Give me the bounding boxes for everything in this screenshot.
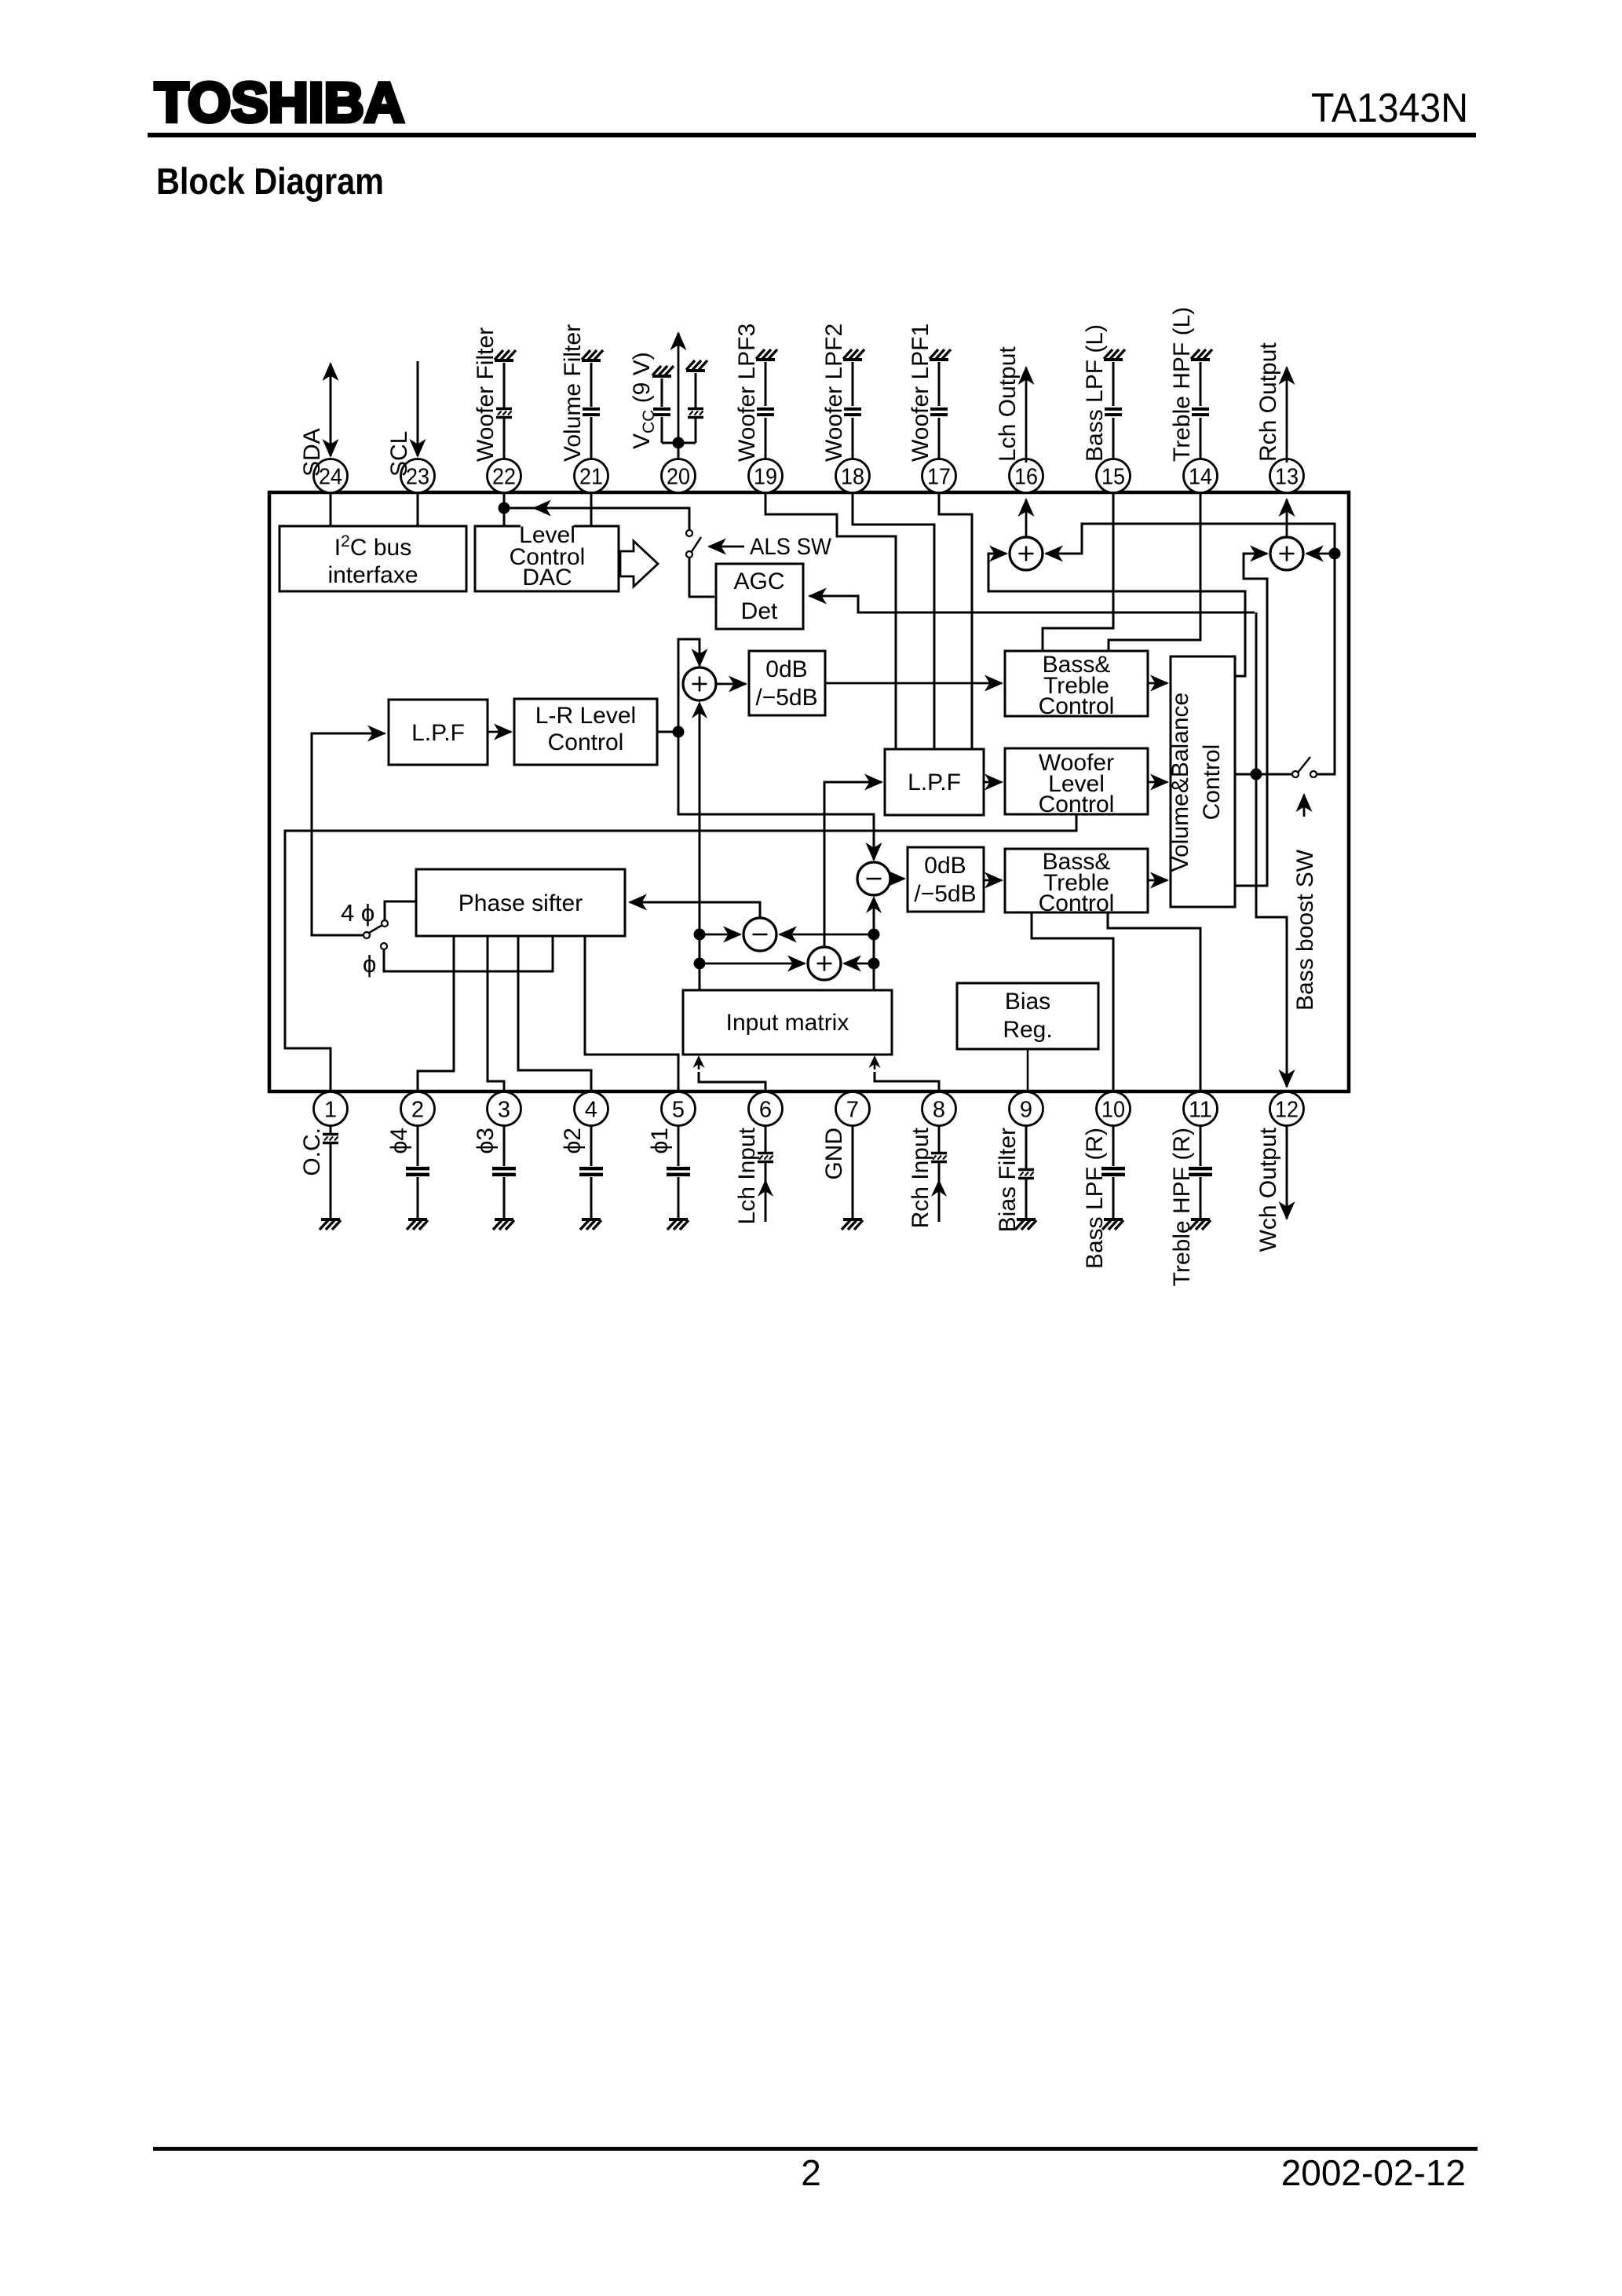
svg-text:7: 7 <box>846 1098 859 1123</box>
svg-text:1: 1 <box>324 1098 337 1123</box>
wire Rch dot to S3 <box>780 934 874 936</box>
svg-text:Phase sifter: Phase sifter <box>458 890 583 916</box>
ALS SW switch <box>686 530 701 558</box>
pin 7 <box>836 1092 870 1126</box>
wire O.C. line (pin 1) and woofer tap <box>285 814 1076 1091</box>
wire S6 up to pin 13 <box>1286 499 1288 538</box>
wire SCL line with arrow into pin 23 <box>417 361 419 456</box>
pin 1 <box>314 1092 348 1126</box>
part number TA1343N <box>1311 86 1468 131</box>
capacitor at pin 18 <box>844 409 861 415</box>
svg-text:13: 13 <box>1275 465 1299 490</box>
TOSHIBA logo <box>155 72 404 134</box>
capacitor (hatched) at pin 8 <box>931 1153 947 1162</box>
pin 21 label Volume Filter <box>560 324 586 462</box>
wire Bass&amp;Treble (bottom) tap to pin 10 <box>1032 912 1113 1091</box>
date 2002-02-12 <box>1281 2152 1466 2193</box>
phase select switch <box>363 920 388 949</box>
pin 17 <box>922 459 956 493</box>
block: Input matrix <box>683 990 892 1055</box>
wire Volume&amp;Balance woofer output <box>1235 773 1292 776</box>
pin 4 label &#981;2 <box>560 1128 586 1154</box>
pin 14 label Treble HPF (L) <box>1169 307 1195 462</box>
pin 8 <box>922 1092 956 1126</box>
wire Bass&amp;Treble (bottom) to Volume&amp;Balance <box>1148 879 1167 882</box>
pin 9 <box>1010 1092 1043 1126</box>
node: Vcc junction dot <box>673 437 685 449</box>
wire L-R output node <box>657 731 678 733</box>
chassis ground below pin 4 <box>580 1219 601 1230</box>
svg-text:TA1343N: TA1343N <box>1311 86 1468 131</box>
pin 9 label Bias Filter <box>995 1128 1021 1232</box>
wire SDA bidirectional arrow (pin 24) <box>330 364 332 456</box>
svg-text:Control: Control <box>1039 890 1115 916</box>
pin 22 label Woofer Filter <box>473 327 499 462</box>
capacitor at pin 14 <box>1192 409 1209 415</box>
wire L-R output to summing node S2 (top) <box>678 732 874 860</box>
block: Level Control DAC <box>475 519 619 591</box>
svg-text:Bass boost SW: Bass boost SW <box>1292 849 1318 1011</box>
svg-text:ϕ2: ϕ2 <box>560 1128 586 1154</box>
pin 3 label &#981;3 <box>473 1128 499 1154</box>
Vcc supply arrow at pin 20 <box>678 333 680 459</box>
wire Lch dot to S3 <box>700 934 740 936</box>
wire phi contact to Phase sifter output <box>384 936 553 971</box>
pin 17 external filter wire <box>938 362 941 459</box>
svg-text:Control: Control <box>1039 693 1115 719</box>
pin 18 label Woofer LPF2 <box>821 324 847 462</box>
Level Control DAC output block arrow <box>620 541 658 587</box>
block: L.P.F (left) <box>389 700 488 765</box>
wire pin 19 to L.P.F (2) <box>765 492 896 749</box>
wire Input matrix Lch up to S1 <box>692 701 707 990</box>
wire Lch dot to S4 <box>700 963 805 965</box>
pin 4 <box>575 1092 608 1126</box>
footer rule <box>153 2147 1478 2151</box>
svg-text:Woofer LPF2: Woofer LPF2 <box>821 324 847 462</box>
wire dot down to Bass boost switch <box>1317 554 1335 774</box>
capacitor at pin 19 <box>757 409 774 415</box>
svg-text:Lch Input: Lch Input <box>734 1127 760 1224</box>
pin 14 external filter wire <box>1200 362 1202 459</box>
node: junction dot on pin 22 line <box>499 503 510 514</box>
svg-text:0dB: 0dB <box>765 656 807 682</box>
wire Volume&amp;Balance Rch to S6 <box>1235 554 1267 886</box>
svg-text:Rch Output: Rch Output <box>1255 342 1281 462</box>
svg-text:ϕ: ϕ <box>363 950 376 978</box>
chassis ground below pin 10 <box>1102 1219 1123 1230</box>
pin 7 label GND <box>821 1128 847 1180</box>
svg-text:11: 11 <box>1189 1098 1212 1123</box>
wire ALS switch to AGC Det <box>689 558 714 597</box>
svg-text:Input matrix: Input matrix <box>726 1010 849 1036</box>
node: junction dot Lch/S3 <box>694 929 706 941</box>
block: Bias Reg. <box>957 983 1098 1049</box>
capacitor at pin 17 <box>930 409 948 415</box>
svg-text:10: 10 <box>1101 1098 1125 1123</box>
svg-text:Control: Control <box>548 729 624 755</box>
svg-text:TOSHIBA: TOSHIBA <box>155 72 404 134</box>
svg-text:9: 9 <box>1020 1098 1032 1123</box>
pin 10 external filter wire <box>1112 1125 1115 1219</box>
block: L.P.F (2) <box>885 749 984 815</box>
wire pin 22 to Level Control DAC <box>503 492 506 526</box>
svg-text:18: 18 <box>841 465 864 490</box>
header rule <box>148 133 1476 137</box>
chassis ground below pin 11 <box>1189 1219 1211 1230</box>
capacitor (hatched) at pin 1 <box>323 1135 338 1143</box>
pin 10 label Bass LPF (R) <box>1082 1128 1108 1269</box>
block: L-R Level Control <box>514 699 657 765</box>
pin 2 <box>401 1092 435 1126</box>
node: junction dot woofer output <box>1251 769 1262 781</box>
summing node S6 (+) Rch output <box>1270 537 1303 570</box>
summing node S4 (+) <box>808 947 841 980</box>
wire pin22 node to ALS switch <box>504 508 689 532</box>
pin 8 label Rch Input <box>908 1127 933 1228</box>
svg-text:2: 2 <box>411 1098 424 1123</box>
pin 19 label Woofer LPF3 <box>734 324 760 462</box>
block: AGC Det <box>716 564 803 629</box>
svg-text:DAC: DAC <box>522 565 572 590</box>
pin 5 label &#981;1 <box>647 1128 673 1154</box>
wire pin 21 to Level Control DAC <box>590 492 593 526</box>
pin 15 label Bass LPF (L) <box>1082 324 1108 462</box>
capacitor at pin 15 <box>1105 409 1122 415</box>
capacitor at pin 5 <box>667 1168 690 1175</box>
wire Phase sifter output phi1 to pin 5 <box>585 936 678 1091</box>
svg-text:Control: Control <box>1199 744 1225 821</box>
wire 0dB(1) to Bass&amp;Treble Control (top) <box>825 682 1002 685</box>
svg-text:Det: Det <box>741 598 778 624</box>
pin 17 label Woofer LPF1 <box>908 324 933 462</box>
wire S4 output up to L.P.F (2) <box>824 782 882 948</box>
svg-text:20: 20 <box>667 465 690 490</box>
pin 1 O.C. external: wire <box>330 1125 332 1219</box>
chassis ground above pin 15 <box>1104 349 1125 360</box>
pin 22 <box>488 459 521 493</box>
chassis ground above pin 17 <box>930 349 951 360</box>
pin 13 label Rch Output <box>1255 342 1281 462</box>
pin 8 input wire with arrow <box>931 1125 947 1222</box>
pin 15 external filter wire <box>1112 362 1115 459</box>
svg-text:21: 21 <box>579 465 603 490</box>
capacitor at pin 21 <box>583 409 600 415</box>
pin 15 <box>1097 459 1131 493</box>
chassis ground Vcc right branch <box>686 360 707 371</box>
wire S5 up to pin 16 <box>1025 499 1028 538</box>
pin 12 label Wch Output <box>1255 1127 1281 1252</box>
label Bass boost SW <box>1292 849 1318 1011</box>
svg-text:L-R Level: L-R Level <box>535 703 636 729</box>
pin 21 Volume Filter external: wire <box>590 363 593 459</box>
title Block Diagram <box>156 160 384 202</box>
pin 24 label SDA <box>299 428 325 477</box>
svg-text:5: 5 <box>672 1098 685 1123</box>
svg-text:Woofer Filter: Woofer Filter <box>473 327 499 462</box>
block: Bass&amp;Treble Control (top) <box>1005 651 1148 719</box>
svg-text:Control: Control <box>1039 792 1115 817</box>
capacitor Vcc left branch <box>653 409 670 415</box>
svg-text:ϕ1: ϕ1 <box>647 1128 673 1154</box>
IC body outline U1 TA1343N <box>269 492 1349 1091</box>
pin 22 Woofer Filter external: wire <box>503 363 506 459</box>
svg-text:Block Diagram: Block Diagram <box>156 160 384 202</box>
chassis ground below pin 7 <box>842 1219 863 1230</box>
svg-text:Treble HPF (L): Treble HPF (L) <box>1169 307 1195 462</box>
block: Phase sifter <box>416 869 625 936</box>
label ALS SW <box>750 534 832 560</box>
Rch Output arrow (pin 13) <box>1286 367 1288 462</box>
pin 11 label Treble HPF (R) <box>1169 1128 1195 1286</box>
pin 10 <box>1097 1092 1131 1126</box>
pin 11 external filter wire <box>1200 1125 1202 1219</box>
wire L.P.F input from 4-phi switch line <box>312 733 385 935</box>
wire Phase sifter output phi2 to pin 4 <box>518 936 591 1091</box>
capacitor at pin 2 <box>406 1168 429 1175</box>
svg-text:4 ϕ: 4 ϕ <box>341 899 374 927</box>
wire S2 to 0dB/-5dB (2) <box>890 878 904 880</box>
wire pin 14 to Bass&amp;Treble (top) <box>1109 492 1200 651</box>
pin 18 <box>836 459 870 493</box>
svg-text:Treble HPF (R): Treble HPF (R) <box>1169 1128 1195 1286</box>
wire woofer boost to S5 right input <box>1046 524 1335 554</box>
svg-text:Woofer LPF1: Woofer LPF1 <box>908 324 933 462</box>
wire L.P.F to L-R Level Control <box>488 731 511 733</box>
pin 3 <box>488 1092 521 1126</box>
svg-text:O.C.: O.C. <box>299 1128 325 1176</box>
svg-text:3: 3 <box>498 1098 510 1123</box>
block: Volume&amp;Balance Control <box>1167 656 1235 907</box>
Lch Output arrow (pin 16) <box>1025 367 1028 462</box>
Bass boost SW indicator arrow <box>1303 795 1306 817</box>
pin 20 <box>662 459 696 493</box>
svg-text:Wch Output: Wch Output <box>1255 1127 1281 1252</box>
svg-text:2: 2 <box>801 2152 821 2193</box>
pin 19 <box>749 459 783 493</box>
svg-text:22: 22 <box>492 465 516 490</box>
svg-text:Reg.: Reg. <box>1003 1017 1052 1043</box>
summing node S2 (-) <box>857 862 890 895</box>
label 4 phi <box>341 899 374 927</box>
wire S1 to 0dB/-5dB (1) <box>716 683 746 686</box>
svg-text:Volume&Balance: Volume&Balance <box>1167 693 1193 872</box>
pin 20 label Vcc (9 V) <box>629 352 658 449</box>
svg-text:Woofer LPF3: Woofer LPF3 <box>734 324 760 462</box>
page number 2 <box>801 2152 821 2193</box>
pin 21 <box>575 459 608 493</box>
Wch Output arrow (pin 12) <box>1286 1125 1288 1219</box>
wire pin 24 to I2C interface <box>330 492 332 526</box>
block: Bass&amp;Treble Control (bottom) <box>1005 849 1148 916</box>
pin 2 label &#981;4 <box>386 1128 412 1154</box>
svg-text:Bass LPF (R): Bass LPF (R) <box>1082 1128 1108 1269</box>
wire pin 6 to Input matrix <box>693 1055 766 1091</box>
capacitor at pin 11 <box>1189 1168 1212 1175</box>
svg-text:8: 8 <box>933 1098 945 1123</box>
svg-text:6: 6 <box>759 1098 772 1123</box>
wire L.P.F(2) to Woofer Level Control <box>984 781 1002 784</box>
label phi <box>363 950 376 978</box>
capacitor at pin 4 <box>579 1168 603 1175</box>
wire Vcc left decoupling branch <box>662 378 678 443</box>
pin 6 <box>749 1092 783 1126</box>
wire Bias Reg. to pin 9 <box>1027 1049 1029 1091</box>
node: junction dot Rch/S3 <box>868 929 880 941</box>
pin 1 label O.C. <box>299 1128 325 1176</box>
pin 6 label Lch Input <box>734 1127 760 1224</box>
pin 24 <box>314 459 348 493</box>
svg-text:15: 15 <box>1101 465 1125 490</box>
node: L-R output junction dot <box>673 726 685 738</box>
node: junction dot Rch/S4 <box>868 958 880 970</box>
capacitor at pin 10 <box>1101 1168 1125 1175</box>
node: junction dot Lch/S4 <box>694 958 706 970</box>
pin 23 <box>401 459 435 493</box>
wire woofer dot down to pin 12 (Wch) <box>1256 774 1287 1087</box>
svg-text:/−5dB: /−5dB <box>914 881 976 907</box>
wire Volume&amp;Balance Lch to S5 <box>988 554 1245 676</box>
ALS SW label arrow <box>709 546 744 548</box>
svg-text:19: 19 <box>754 465 777 490</box>
svg-text:interfaxe: interfaxe <box>327 562 418 588</box>
wire AGC Det input from woofer line <box>809 596 1255 612</box>
pin 6 input wire with arrow <box>758 1125 773 1222</box>
block: 0dB/-5dB (1) <box>749 651 825 715</box>
svg-text:SCL: SCL <box>386 431 412 477</box>
svg-text:ϕ4: ϕ4 <box>386 1128 412 1154</box>
wire S3 output to Phase sifter <box>630 902 760 919</box>
svg-text:17: 17 <box>927 465 951 490</box>
chassis ground above pin 21 <box>582 350 603 360</box>
pin 11 <box>1184 1092 1218 1126</box>
svg-text:16: 16 <box>1014 465 1038 490</box>
svg-text:Bias: Bias <box>1005 989 1050 1015</box>
svg-text:2002-02-12: 2002-02-12 <box>1281 2152 1466 2193</box>
wire woofer dot up to AGC line <box>1255 612 1258 774</box>
wire switch common to Phase sifter <box>385 901 416 920</box>
Bass boost SW switch <box>1292 757 1317 777</box>
svg-text:VCC (9 V): VCC (9 V) <box>629 352 658 449</box>
svg-text:0dB: 0dB <box>924 853 966 879</box>
svg-text:4: 4 <box>585 1098 597 1123</box>
svg-text:Volume Filter: Volume Filter <box>560 324 586 462</box>
wire Phase sifter output phi3 to pin 3 <box>488 936 504 1091</box>
svg-text:Lch Output: Lch Output <box>995 346 1021 462</box>
pin 16 <box>1010 459 1043 493</box>
svg-text:Bass LPF (L): Bass LPF (L) <box>1082 324 1108 462</box>
chassis ground below pin 2 <box>407 1219 428 1230</box>
pin 5 external filter wire <box>678 1125 680 1219</box>
wire pin 18 to L.P.F (2) <box>853 492 934 749</box>
chassis ground above pin 18 <box>843 349 864 360</box>
wire Bass&amp;Treble (top) to Volume&amp;Balance <box>1148 682 1167 685</box>
pin 3 external filter wire <box>503 1125 506 1219</box>
wire Vcc right decoupling branch <box>678 373 696 443</box>
wire Rch dot to S4 <box>844 963 874 965</box>
wire Bass&amp;Treble (bottom) tap to pin 11 <box>1108 912 1200 1091</box>
chassis ground above pin 14 <box>1191 349 1212 360</box>
wire Phase sifter output phi4 to pin 2 <box>418 936 454 1091</box>
pin 5 <box>662 1092 696 1126</box>
svg-text:14: 14 <box>1189 465 1212 490</box>
pin 12 <box>1270 1092 1304 1126</box>
svg-text:ALS SW: ALS SW <box>750 534 832 560</box>
block: I2C bus interfaxe <box>279 526 466 591</box>
wire pin 8 to Input matrix <box>869 1055 940 1091</box>
pin 7 GND wire <box>852 1125 854 1219</box>
summing node S3 (-) <box>743 918 776 951</box>
pin 14 <box>1184 459 1218 493</box>
svg-text:AGC: AGC <box>733 569 784 594</box>
pin 19 external filter wire <box>765 362 767 459</box>
svg-text:Bias Filter: Bias Filter <box>995 1128 1021 1232</box>
svg-text:L.P.F: L.P.F <box>908 770 961 795</box>
wire Woofer Level Control to Volume&amp;Balance <box>1148 781 1167 784</box>
pin 23 label SCL <box>386 431 412 477</box>
svg-text:12: 12 <box>1275 1098 1299 1123</box>
svg-text:Rch Input: Rch Input <box>908 1127 933 1228</box>
wire woofer dot to S6 right input <box>1306 553 1335 555</box>
capacitor (hatched) at pin 6 <box>758 1153 773 1162</box>
pin 9 Bias Filter wire <box>1025 1125 1028 1219</box>
wire pin 15 to Bass&amp;Treble (top) <box>1043 492 1113 651</box>
svg-text:L.P.F: L.P.F <box>411 720 465 746</box>
chassis ground below pin 5 <box>667 1219 689 1230</box>
svg-text:GND: GND <box>821 1128 847 1180</box>
pin 18 external filter wire <box>852 362 854 459</box>
capacitor at pin 3 <box>492 1168 516 1175</box>
block: Woofer Level Control <box>1005 748 1148 817</box>
chassis ground Vcc left branch <box>652 366 674 376</box>
chassis ground below pin 9 <box>1015 1219 1036 1230</box>
summing node S1 (+) <box>683 667 716 700</box>
pin 16 label Lch Output <box>995 346 1021 462</box>
chassis ground above pin 22 <box>495 350 516 360</box>
wire L-R output to summing node S1 (top) <box>678 639 700 732</box>
block: 0dB/-5dB (2) <box>908 847 984 912</box>
wire Input matrix Rch up to S2 <box>866 896 882 990</box>
pin 2 external filter wire <box>417 1125 419 1219</box>
chassis ground below pin 1 <box>320 1219 341 1230</box>
pin 4 external filter wire <box>590 1125 593 1219</box>
svg-text:ϕ3: ϕ3 <box>473 1128 499 1154</box>
capacitor (hatched) at pin 9 <box>1018 1170 1034 1179</box>
capacitor (hatched) Vcc right branch <box>688 409 703 418</box>
summing node S5 (+) Lch output <box>1010 537 1043 570</box>
chassis ground below pin 3 <box>493 1219 514 1230</box>
wire 0dB(2) to Bass&amp;Treble Control (bottom) <box>984 879 1002 882</box>
chassis ground above pin 19 <box>756 349 777 360</box>
wire pin 23 to I2C interface <box>417 492 419 526</box>
node: junction dot woofer/S6 <box>1329 548 1341 560</box>
pin 13 <box>1270 459 1304 493</box>
capacitor (hatched) at pin 22 <box>496 409 512 418</box>
svg-text:/−5dB: /−5dB <box>755 685 817 711</box>
svg-text:SDA: SDA <box>299 428 325 477</box>
wire pin 17 to L.P.F (2) <box>939 492 972 749</box>
